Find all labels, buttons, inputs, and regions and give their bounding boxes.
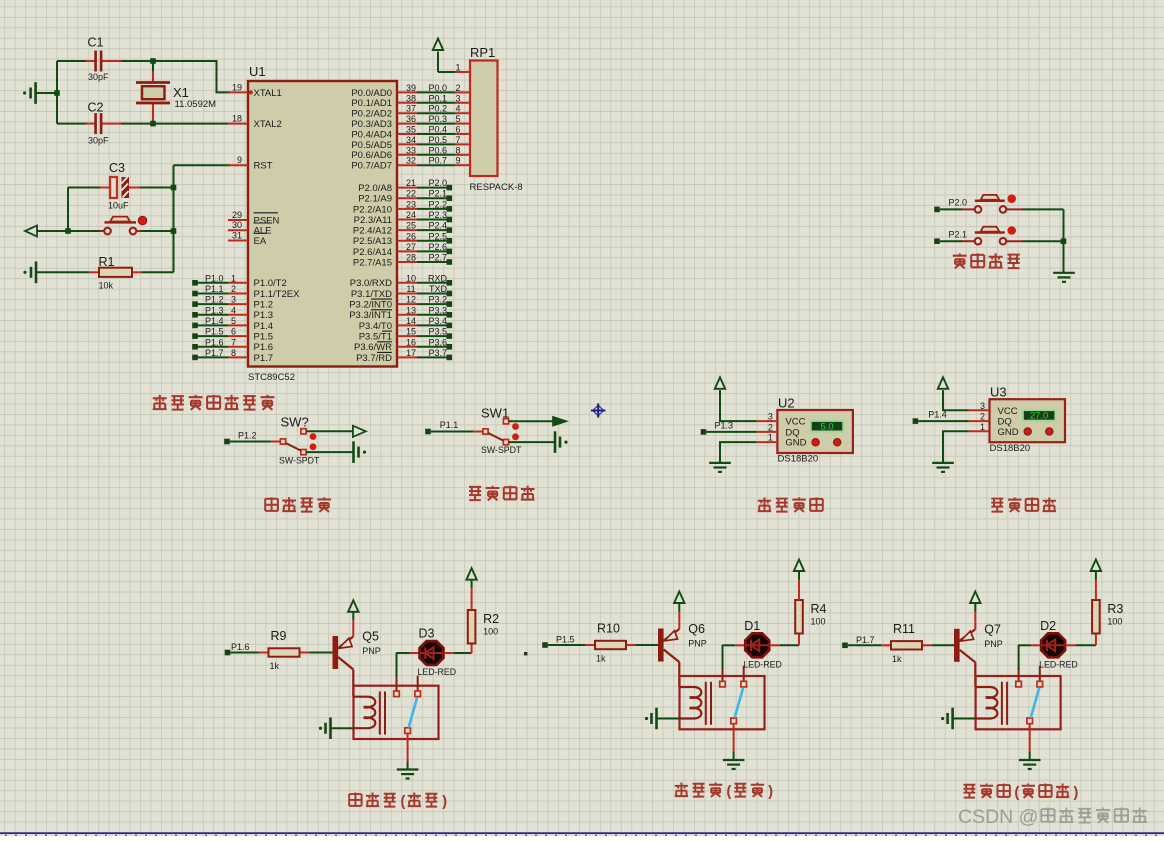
svg-text:23: 23: [406, 199, 416, 209]
svg-text:P0.0: P0.0: [428, 83, 447, 93]
power terminal (Q6): [674, 592, 684, 604]
svg-text:PNP: PNP: [688, 639, 707, 649]
U1 left pin numbers: [232, 82, 242, 240]
svg-text:5: 5: [455, 114, 460, 124]
caption 人体红外: [469, 486, 534, 501]
value LED-RED (D2): [1039, 659, 1078, 669]
U1 pin name overlines PSEN/ALE/EA: [254, 213, 279, 234]
svg-text:39: 39: [406, 83, 416, 93]
wire U3 VCC to power: [943, 390, 969, 410]
svg-text:Q6: Q6: [688, 622, 705, 636]
wire relay coil to ground (cool): [657, 718, 680, 720]
wire+terminal net P1.4: [913, 418, 969, 424]
caption 单片机最小系统: [153, 395, 275, 410]
wire relay COM to ground (lamp): [1029, 724, 1031, 760]
svg-text:2: 2: [768, 422, 773, 432]
power terminal (RP1): [433, 39, 443, 73]
net label P1.1: [440, 420, 459, 430]
U1 P1 pin numbers 1-8: [231, 273, 236, 358]
label SW?: [281, 415, 309, 430]
junction button left: [65, 228, 71, 234]
relay RL (heat): [354, 676, 439, 740]
svg-text:P3.3: P3.3: [428, 305, 447, 315]
wire+terminal net P3.4: [417, 323, 452, 329]
svg-text:3: 3: [231, 295, 236, 305]
svg-text:8: 8: [455, 145, 460, 155]
svg-text:R10: R10: [597, 622, 620, 636]
svg-text:P0.1/AD1: P0.1/AD1: [351, 98, 392, 109]
ground terminal (SW1): [555, 431, 568, 453]
svg-text:7: 7: [455, 135, 460, 145]
wire P0.4 to RP1: [417, 133, 455, 135]
svg-text:1k: 1k: [270, 661, 280, 671]
transistor Q5 (PNP): [333, 611, 354, 669]
svg-text:P2.7: P2.7: [428, 253, 447, 263]
net label P2.0 (key): [949, 198, 968, 208]
wire+terminal net P3.3: [417, 312, 452, 318]
caption 继电器(制冷): [675, 783, 773, 800]
svg-text:100: 100: [811, 617, 826, 627]
svg-text:31: 31: [232, 231, 242, 241]
value R3 100: [1107, 617, 1122, 627]
ground terminal (relay coil cool): [645, 708, 657, 730]
wire+terminal net P3.2: [417, 301, 452, 307]
label R1: [99, 255, 115, 269]
wire relay coil to ground (lamp): [953, 718, 976, 720]
svg-text:10k: 10k: [99, 281, 114, 291]
sensor U2 DS18B20: [756, 410, 853, 453]
wire RST net: [174, 165, 231, 272]
svg-text:SW?: SW?: [281, 415, 309, 430]
svg-text:XTAL2: XTAL2: [254, 119, 282, 130]
blue origin marker: [591, 403, 605, 417]
label Q6: [688, 622, 705, 636]
net label P1.2: [238, 430, 257, 440]
wire+terminal net P2.4: [417, 227, 452, 233]
resistor R3 (100): [1092, 571, 1100, 646]
RP1 pin numbers: [455, 63, 460, 166]
svg-text:R3: R3: [1107, 602, 1123, 616]
svg-text:TXD: TXD: [429, 284, 448, 294]
svg-text:): ): [768, 783, 773, 800]
wire crystal-common vertical: [36, 61, 58, 124]
svg-text:P2.6/A14: P2.6/A14: [353, 247, 392, 258]
label R9: [271, 629, 287, 643]
wire+terminal net P2.0: [417, 185, 452, 191]
value C1 30pF: [88, 72, 109, 82]
svg-text:29: 29: [232, 210, 242, 220]
junction RST/C3: [171, 185, 177, 191]
svg-text:U1: U1: [249, 64, 266, 79]
stray dot: [524, 652, 527, 655]
value R2 100: [483, 627, 498, 637]
svg-text:P1.4: P1.4: [205, 316, 224, 326]
svg-text:6: 6: [455, 125, 460, 135]
svg-text:P3.4/T0: P3.4/T0: [359, 321, 392, 332]
svg-text:P2.1/A9: P2.1/A9: [358, 194, 392, 205]
capacitor C3 (10uF): [68, 177, 174, 198]
svg-text:R1: R1: [99, 255, 115, 269]
wire U2 VCC to power: [720, 390, 756, 421]
svg-text:17: 17: [406, 348, 416, 358]
power terminal (R4): [794, 560, 804, 572]
svg-text:P3.0/RXD: P3.0/RXD: [350, 278, 392, 289]
power terminal (R2): [466, 568, 476, 580]
svg-text:P1.6: P1.6: [205, 337, 224, 347]
svg-text:U2: U2: [778, 396, 795, 411]
power terminal (U2): [715, 377, 725, 392]
value R9 1k: [270, 661, 280, 671]
svg-text:22: 22: [406, 189, 416, 199]
output terminal arrow (SW1): [553, 417, 566, 426]
value LED-RED (D3): [418, 667, 457, 677]
wire P0.1 to RP1: [417, 102, 455, 104]
svg-text:1: 1: [768, 433, 773, 443]
label R4: [811, 602, 827, 616]
wire Q6 collector to relay: [678, 662, 680, 686]
wire relay NO up to LED (cool): [722, 645, 724, 670]
svg-text:): ): [1073, 784, 1078, 801]
U1 overlines INT0/INT1/T1/WR/RD: [371, 299, 392, 352]
wire P0.2 to RP1: [417, 112, 455, 114]
label D2: [1040, 619, 1056, 633]
ground terminal (relay coil lamp): [941, 708, 953, 730]
svg-text:P0.3: P0.3: [428, 114, 447, 124]
svg-text:P2.4/A12: P2.4/A12: [353, 226, 392, 237]
svg-text:P3.5: P3.5: [428, 327, 447, 337]
svg-text:SW1: SW1: [481, 406, 509, 421]
wire+terminal net RXD: [417, 280, 452, 286]
svg-text:P3.2/INT0: P3.2/INT0: [349, 300, 392, 311]
net label P2.1 (key): [949, 229, 968, 239]
svg-text:6: 6: [231, 327, 236, 337]
wire+terminal net P2.3: [417, 217, 452, 223]
sensor U3 DS18B20: [969, 399, 1066, 442]
svg-text:P1.0: P1.0: [205, 273, 224, 283]
svg-text:30pF: 30pF: [88, 72, 109, 82]
push button (reset): [68, 217, 174, 235]
svg-text:P1.0/T2: P1.0/T2: [254, 278, 287, 289]
svg-text:27: 27: [406, 242, 416, 252]
wire+terminal net P1.7: [842, 643, 881, 649]
svg-text:VCC: VCC: [785, 417, 805, 428]
svg-text:P0.1: P0.1: [428, 93, 447, 103]
label U1: [249, 64, 266, 79]
left arrow terminal (reset): [25, 226, 68, 237]
svg-text:C3: C3: [109, 161, 125, 175]
resistor pack RP1: [455, 61, 498, 177]
svg-text:13: 13: [406, 305, 416, 315]
label R10: [597, 622, 620, 636]
wire+terminal net P1.0: [192, 280, 228, 286]
label C2: [88, 101, 104, 115]
wire Q7 collector to relay: [974, 662, 976, 686]
U1 right pin names P0: [351, 88, 392, 172]
junction RST/button: [171, 228, 177, 234]
svg-text:STC89C52: STC89C52: [248, 372, 295, 383]
ground terminal (relay coil heat): [319, 717, 331, 739]
power terminal (U3): [938, 377, 948, 392]
svg-text:21: 21: [406, 178, 416, 188]
wire C3 left leg: [67, 188, 69, 232]
svg-text:DS18B20: DS18B20: [778, 454, 819, 465]
ground terminal (keys): [1053, 273, 1075, 282]
svg-text:P1.2: P1.2: [205, 295, 224, 305]
wire SW? NO to output arrow: [306, 430, 353, 432]
svg-text:P3.7: P3.7: [428, 348, 447, 358]
svg-text:C2: C2: [88, 101, 104, 115]
svg-text:P1.5: P1.5: [205, 327, 224, 337]
relay RL (cool): [680, 666, 765, 730]
label C1: [88, 36, 104, 50]
svg-text:10uF: 10uF: [108, 201, 129, 211]
wire C1 left: [57, 60, 86, 62]
switch SW1 (SW-SPDT): [425, 419, 519, 445]
junction keys: [1061, 238, 1067, 244]
label Q7: [984, 622, 1001, 636]
ground terminal (relay COM heat): [397, 770, 419, 779]
svg-text:4: 4: [231, 305, 236, 315]
value R10 1k: [596, 654, 606, 664]
svg-text:P3.1/TXD: P3.1/TXD: [351, 289, 392, 300]
wire C2 row: [57, 123, 228, 125]
push button key P2.0: [934, 194, 1063, 212]
svg-text:P2.5: P2.5: [428, 231, 447, 241]
svg-text:R9: R9: [271, 629, 287, 643]
LED D1 (LED-RED): [723, 633, 800, 657]
label U2: [778, 396, 795, 411]
svg-text:37: 37: [406, 104, 416, 114]
svg-text:28: 28: [406, 253, 416, 263]
svg-text:P2.2/A10: P2.2/A10: [353, 204, 392, 215]
wire+terminal net P1.6: [225, 650, 259, 656]
transistor Q6 (PNP): [658, 603, 679, 663]
ground terminal (crystal common): [23, 82, 36, 104]
svg-text:P2.1: P2.1: [428, 189, 447, 199]
svg-text:11.0592M: 11.0592M: [175, 99, 217, 110]
ground terminal (U3): [932, 463, 954, 472]
U1 right pin names P2: [353, 183, 392, 268]
junction C2/X1 bottom: [150, 121, 156, 127]
wire+terminal net P3.6: [417, 344, 452, 350]
svg-text:18: 18: [232, 114, 242, 124]
svg-text:VCC: VCC: [998, 406, 1018, 417]
label DS18B20 (U3): [990, 443, 1031, 454]
svg-text:D1: D1: [744, 619, 760, 633]
svg-text:36: 36: [406, 114, 416, 124]
svg-text:P1.2: P1.2: [254, 300, 274, 311]
wire SW? NC to ground: [306, 451, 354, 453]
wire keys to ground: [1063, 209, 1065, 272]
power terminal (R3): [1091, 560, 1101, 572]
label RP1: [470, 45, 495, 60]
wire P0.0 to RP1: [417, 91, 455, 93]
IC U1 STC89C52 body: [248, 81, 397, 367]
label DS18B20 (U2): [778, 454, 819, 465]
svg-text:26: 26: [406, 231, 416, 241]
caption 继电器(加热): [349, 793, 447, 810]
svg-text:EA: EA: [254, 236, 267, 247]
wire P0.5 to RP1: [417, 143, 455, 145]
svg-text:P1.5: P1.5: [556, 635, 575, 645]
wire SW1 NC to ground: [509, 441, 555, 443]
wire+terminal net P1.4: [192, 323, 228, 329]
ground terminal (relay COM cool): [723, 760, 745, 769]
svg-text:P2.3/A11: P2.3/A11: [354, 215, 392, 226]
relay RL (lamp): [976, 666, 1061, 730]
wire R11 to Q7 base: [932, 644, 954, 646]
wire+terminal net P3.7: [417, 355, 452, 361]
svg-text:7: 7: [231, 337, 236, 347]
svg-text:): ): [442, 793, 447, 810]
svg-text:1: 1: [231, 273, 236, 283]
svg-text:34: 34: [406, 135, 416, 145]
U1 P1 pin names: [254, 278, 301, 364]
svg-text:CSDN @: CSDN @: [958, 806, 1038, 828]
resistor R11 (1k): [881, 641, 932, 649]
svg-text:LED-RED: LED-RED: [1039, 659, 1078, 669]
svg-text:Q7: Q7: [984, 622, 1001, 636]
svg-text:RST: RST: [254, 161, 273, 172]
relay blade (cyan, lamp): [1031, 688, 1040, 718]
svg-text:16: 16: [406, 337, 416, 347]
wire Q5 collector to relay: [352, 670, 354, 696]
wire relay coil to ground (heat): [331, 727, 354, 729]
wire+terminal net TXD: [417, 291, 452, 297]
U1 right pin stubs: [397, 92, 417, 357]
capacitor C1: [86, 51, 122, 72]
net label P1.4: [928, 410, 947, 420]
svg-text:P2.5/A13: P2.5/A13: [353, 236, 392, 247]
U1 left pin names: [254, 88, 282, 247]
net labels P0.0-P0.7: [428, 83, 447, 166]
label R2: [483, 612, 499, 626]
junction crystal common: [54, 90, 60, 96]
svg-text:GND: GND: [998, 427, 1019, 438]
svg-text:XTAL1: XTAL1: [254, 88, 282, 99]
svg-text:LED-RED: LED-RED: [418, 667, 457, 677]
svg-text:25: 25: [406, 221, 416, 231]
svg-text:PNP: PNP: [984, 639, 1003, 649]
svg-text:8: 8: [231, 348, 236, 358]
value Q6 PNP: [688, 639, 707, 649]
bottom blue rule: [0, 833, 1164, 836]
resistor R10 (1k): [585, 641, 636, 649]
svg-text:3: 3: [455, 93, 460, 103]
svg-text:P1.5: P1.5: [254, 332, 274, 343]
U1 P1 pin stubs: [228, 283, 248, 358]
svg-text:5.0: 5.0: [820, 421, 833, 432]
svg-text:P3.4: P3.4: [428, 316, 447, 326]
wire R10 to Q6 base: [636, 644, 658, 646]
label C3: [109, 161, 125, 175]
wire+terminal net P2.6: [417, 249, 452, 255]
svg-text:14: 14: [406, 316, 416, 326]
svg-text:P3.7/RD: P3.7/RD: [356, 353, 392, 364]
svg-text:15: 15: [406, 327, 416, 337]
label STC89C52: [248, 372, 295, 383]
wire relay COM to ground (heat): [407, 734, 409, 770]
caption 镜面温度: [991, 497, 1056, 512]
resistor R2 (100): [468, 579, 476, 653]
caption 环境温度: [758, 497, 823, 512]
wire+terminal net P3.5: [417, 333, 452, 339]
svg-text:RXD: RXD: [428, 273, 448, 283]
svg-text:1: 1: [980, 422, 985, 432]
ground terminal (SW?): [354, 441, 367, 463]
svg-text:100: 100: [483, 627, 498, 637]
svg-text:(: (: [726, 783, 731, 800]
label X1: [173, 85, 189, 100]
red marker dot (reset button): [138, 216, 146, 224]
value Q5 PNP: [362, 646, 381, 656]
svg-text:11: 11: [406, 284, 415, 294]
wire+terminal net P2.2: [417, 206, 452, 212]
svg-text:P0.3/AD3: P0.3/AD3: [351, 119, 392, 130]
svg-text:P1.1: P1.1: [440, 420, 459, 430]
svg-text:5: 5: [231, 316, 236, 326]
U1 right pin names P3: [349, 278, 392, 364]
svg-text:C1: C1: [88, 36, 104, 50]
svg-text:P1.6: P1.6: [254, 342, 274, 353]
LED D3 (LED-RED): [397, 641, 472, 665]
svg-text:P0.2/AD2: P0.2/AD2: [351, 109, 392, 120]
svg-text:P1.6: P1.6: [231, 642, 250, 652]
svg-text:P0.2: P0.2: [428, 104, 447, 114]
svg-text:DS18B20: DS18B20: [990, 443, 1031, 454]
svg-text:GND: GND: [785, 438, 806, 449]
value R11 1k: [892, 654, 902, 664]
label SW-SPDT (SW?): [279, 456, 320, 466]
net label P1.5: [556, 635, 575, 645]
svg-text:35: 35: [406, 125, 416, 135]
value X1 11.0592M: [175, 99, 217, 110]
label SW1: [481, 406, 509, 421]
svg-text:P2.0: P2.0: [428, 178, 447, 188]
wire SW1 NO to output arrow: [509, 420, 553, 422]
svg-text:3: 3: [768, 412, 773, 422]
wire+terminal net P1.3: [701, 429, 757, 435]
wire+terminal net P2.7: [417, 259, 452, 265]
wire RP1 pin1: [438, 71, 455, 73]
label Q5: [362, 630, 379, 644]
wire+terminal net P1.2: [192, 301, 228, 307]
svg-text:30: 30: [232, 220, 242, 230]
svg-text:P3.6: P3.6: [428, 337, 447, 347]
caption 继电器(氛围灯): [963, 784, 1078, 801]
wire+terminal net P1.5: [542, 642, 585, 648]
svg-text:9: 9: [455, 156, 460, 166]
svg-text:9: 9: [237, 155, 242, 165]
watermark CSDN: [958, 806, 1147, 828]
wire+terminal net P2.5: [417, 238, 452, 244]
svg-text:Q5: Q5: [362, 630, 379, 644]
svg-text:R4: R4: [811, 602, 827, 616]
svg-text:PNP: PNP: [362, 646, 381, 656]
svg-text:P1.4: P1.4: [254, 321, 274, 332]
net labels P1.0-P1.7: [205, 273, 224, 358]
svg-text:P1.7: P1.7: [205, 348, 224, 358]
svg-text:27.0: 27.0: [1030, 411, 1049, 422]
U1 right pin numbers: [406, 83, 416, 358]
svg-text:2: 2: [455, 83, 460, 93]
wire C1 row to XTAL1: [121, 61, 230, 92]
relay blade (cyan, cool): [735, 688, 744, 718]
svg-text:P3.6/WR: P3.6/WR: [354, 342, 392, 353]
svg-text:SW-SPDT: SW-SPDT: [279, 456, 320, 466]
label U3: [990, 385, 1007, 400]
output terminal arrow (SW?): [353, 426, 366, 437]
